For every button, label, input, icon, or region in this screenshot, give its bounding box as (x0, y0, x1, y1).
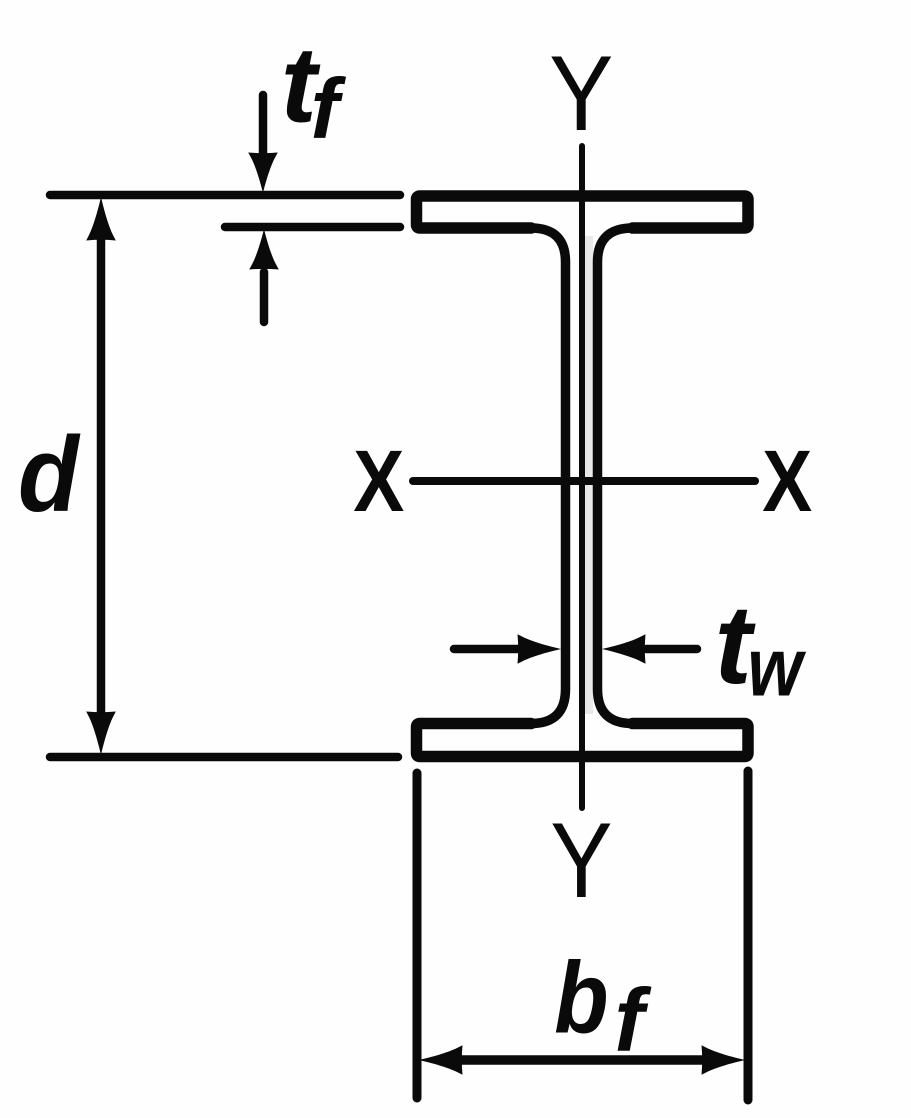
d arrow down (86, 712, 116, 756)
bf arrow right (702, 1045, 746, 1075)
bf dimension line (460, 1055, 704, 1065)
svg-text:w: w (748, 621, 807, 714)
svg-text:X: X (353, 433, 404, 530)
d arrow up (86, 197, 116, 241)
bf extension line left (413, 773, 422, 1098)
extension line flange bottom (tf lower) (225, 223, 400, 232)
dimension d line (97, 238, 106, 714)
X axis centerline (413, 477, 755, 485)
beam web left side with fillets (531, 228, 566, 724)
beam bottom flange (417, 724, 749, 757)
web slot shading (585, 236, 593, 714)
svg-text:Y: Y (549, 33, 613, 153)
svg-text:d: d (18, 414, 81, 534)
tw right arrow (646, 645, 697, 654)
svg-text:Y: Y (550, 801, 612, 920)
svg-text:b: b (554, 942, 608, 1055)
extension line bottom (d) (50, 753, 398, 762)
tf up arrow (260, 272, 269, 322)
tf down arrow (259, 95, 268, 155)
svg-text:X: X (762, 434, 812, 531)
bf arrow left (419, 1045, 463, 1075)
tw left arrow (454, 645, 520, 654)
extension line top (d, tf upper) (50, 191, 400, 200)
bf extension line right (744, 771, 753, 1100)
Y axis centerline (579, 146, 585, 808)
beam web right side with fillets (598, 228, 633, 724)
beam top flange (417, 196, 749, 228)
